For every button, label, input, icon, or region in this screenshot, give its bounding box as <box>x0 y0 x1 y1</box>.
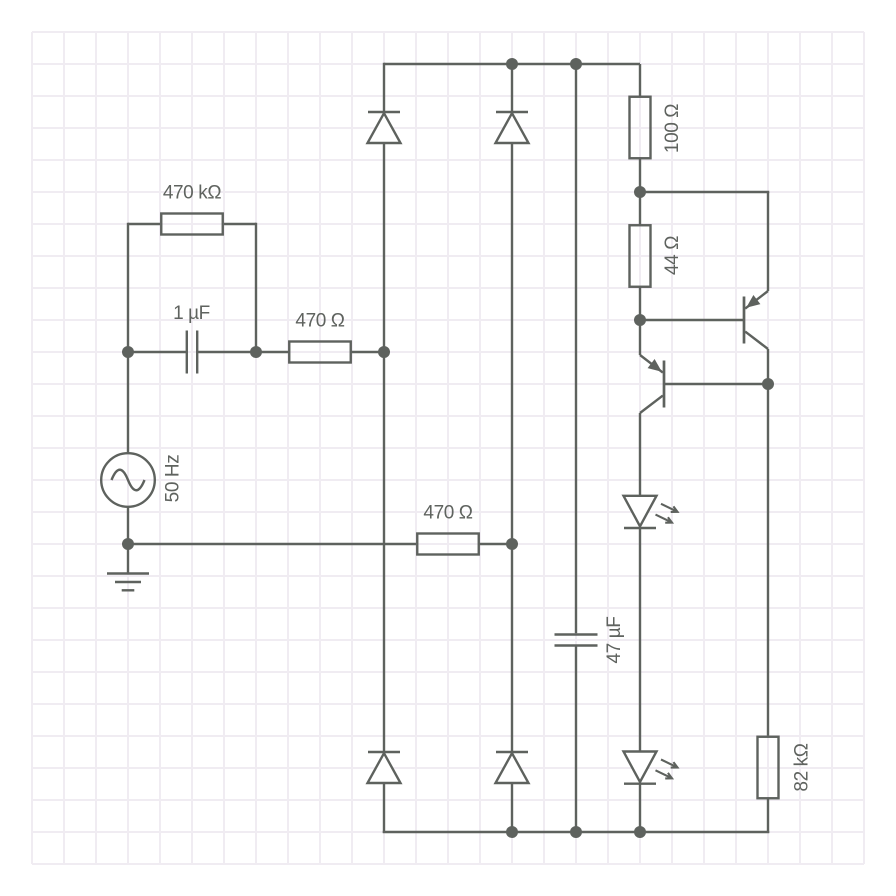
wire left vertical from 470k corner to node E <box>127 223 129 352</box>
resistor R1 470 kohm <box>161 214 223 235</box>
wire x=512 from node F to D4 cathode <box>511 544 513 752</box>
wire node D down to 82k top <box>767 384 769 736</box>
resistor R6 82 kohm <box>758 737 779 799</box>
svg-text:470 Ω: 470 Ω <box>423 503 472 524</box>
wire 44-ohm bottom lead to node C <box>639 287 641 320</box>
node junction top rail / D2 <box>506 58 518 70</box>
AC voltage source V1 50 Hz <box>101 453 155 507</box>
resistor R5 44 ohm <box>630 225 651 287</box>
wire 82k bottom lead to bottom rail <box>767 799 769 834</box>
transistor Q1 PNP <box>743 297 746 344</box>
node A R2 right junction <box>378 346 390 358</box>
transistor Q2 PNP <box>663 361 666 408</box>
node G C1/470k junction <box>250 346 262 358</box>
wire 44-ohm top lead <box>639 192 641 225</box>
LED LED2 <box>624 752 657 783</box>
diode D2 <box>496 111 528 113</box>
wire x=384 from D1 anode down to node A <box>383 143 385 352</box>
wire node C down to Q2 emitter corner <box>639 320 641 355</box>
LED LED1 <box>624 496 657 527</box>
wire R3 right lead to node F <box>479 543 512 545</box>
wire D3 anode to bottom rail <box>383 783 385 833</box>
node B 100-ohm bottom <box>634 186 646 198</box>
wire node H to R3 left lead <box>128 543 416 545</box>
wire D4 anode to bottom rail <box>511 783 513 832</box>
wire bottom rail <box>383 831 770 833</box>
node bottom rail / LED2 <box>634 826 646 838</box>
ground <box>107 572 149 574</box>
node D Q2 base / Q1 collector <box>762 378 774 390</box>
wire LED1 cathode to LED2 anode <box>639 528 641 752</box>
wire x=384 from node A down to D3 cathode <box>383 352 385 752</box>
resistor R3 470 ohm <box>417 534 479 555</box>
wire 100-ohm bottom lead to node B <box>639 159 641 192</box>
svg-text:100 Ω: 100 Ω <box>662 104 683 153</box>
diode D3 <box>368 751 400 753</box>
wire node E down to AC source <box>127 352 129 454</box>
diode D1 <box>368 111 400 113</box>
wire 100-ohm top lead <box>639 64 641 96</box>
node bottom rail / C2 <box>570 826 582 838</box>
wire LED2 cathode to bottom rail <box>639 784 641 832</box>
wire Q1 emitter vertical <box>767 192 769 291</box>
node C 44-ohm bottom <box>634 314 646 326</box>
node bottom rail / D4 <box>506 826 518 838</box>
wire D1 branch top <box>383 63 385 112</box>
wire x=576 from top rail to C2 top plate <box>575 64 577 633</box>
node junction top rail / C2 <box>570 58 582 70</box>
wire Q2 base to node D <box>664 383 768 385</box>
wire node E to C1 left plate <box>128 351 187 353</box>
wire AC source bottom to node H <box>127 507 129 544</box>
node F R3 right junction <box>506 538 518 550</box>
wire node G to 470-ohm R2 <box>256 351 289 353</box>
svg-text:44 Ω: 44 Ω <box>662 236 683 275</box>
resistor R2 470 ohm <box>289 342 351 363</box>
svg-text:470 Ω: 470 Ω <box>295 311 344 332</box>
wire top rail from D1 top to 100-ohm top <box>384 63 640 65</box>
wire 470k right lead <box>224 223 256 225</box>
wire Q1 collector down to node D <box>767 349 769 384</box>
svg-text:82 kΩ: 82 kΩ <box>792 743 813 791</box>
wire D2 branch top <box>511 64 513 112</box>
svg-text:1 µF: 1 µF <box>173 303 210 324</box>
wire R2 right lead to node A <box>351 351 384 353</box>
node E left junction <box>122 346 134 358</box>
svg-text:50 Hz: 50 Hz <box>163 455 184 503</box>
wire C1 right plate to node G <box>197 351 256 353</box>
wire 470k left lead <box>128 223 160 225</box>
wire ground stub <box>127 544 129 574</box>
diode D4 <box>496 751 528 753</box>
resistor R4 100 ohm <box>630 97 651 159</box>
wire node B to Q1 emitter branch <box>640 191 769 193</box>
svg-text:470 kΩ: 470 kΩ <box>163 183 221 204</box>
wire x=512 from D2 anode to node F <box>511 143 513 544</box>
wire Q2 collector down to LED1 <box>639 413 641 496</box>
wire right vertical from 470k to node G <box>255 223 257 352</box>
node H AC source bottom <box>122 538 134 550</box>
capacitor C1 1 uF plates <box>186 331 188 374</box>
wire C2 bottom plate to bottom rail <box>575 646 577 833</box>
wire Q1 base <box>640 319 744 321</box>
capacitor C2 47 uF plates <box>555 633 598 635</box>
svg-text:47 µF: 47 µF <box>604 617 625 664</box>
